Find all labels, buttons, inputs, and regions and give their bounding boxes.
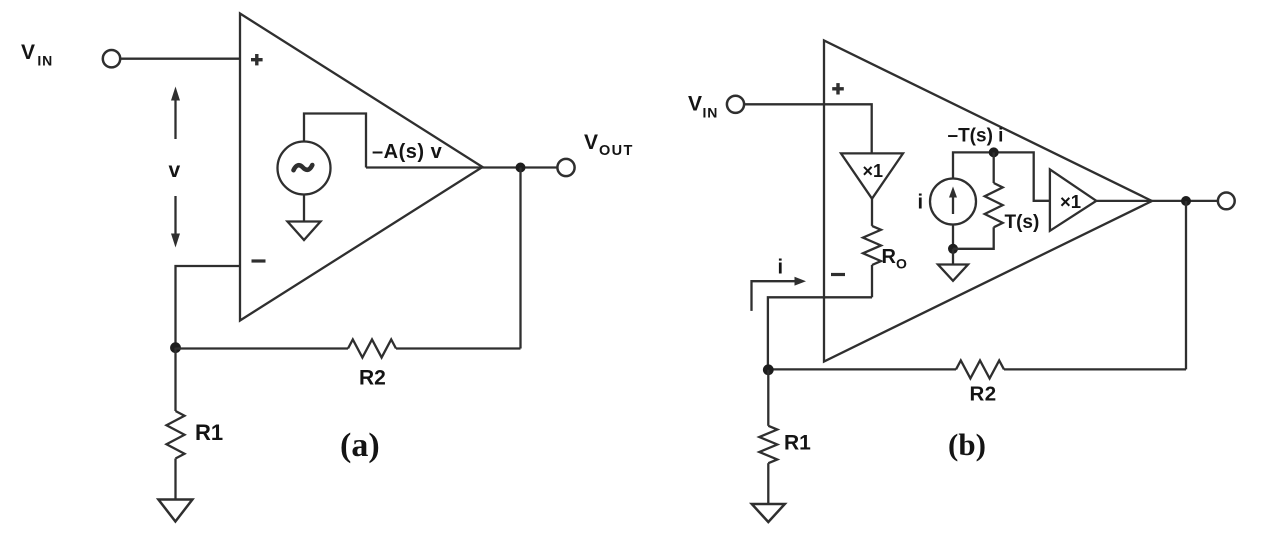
input terminal (a)	[103, 50, 120, 67]
svg-text:V: V	[688, 93, 702, 116]
svg-text:O: O	[896, 256, 907, 272]
wire − input (a)	[176, 266, 242, 348]
output terminal (b)	[1218, 193, 1235, 210]
svg-text:R: R	[882, 246, 897, 268]
pin + label (a)	[251, 54, 263, 65]
svg-text:V: V	[584, 131, 598, 154]
wire R1 to ground (b)	[767, 463, 769, 504]
op-amp U2	[824, 41, 1152, 362]
resistor R2 (a)	[348, 340, 396, 358]
svg-text:–T(s) i: –T(s) i	[948, 126, 1004, 147]
svg-text:OUT: OUT	[599, 143, 634, 159]
wire − input rail (b)	[768, 297, 872, 370]
wire node to R2 (a)	[176, 347, 349, 349]
node VOUT label (a)	[584, 131, 634, 159]
resistor RO	[863, 226, 881, 265]
wire tee top (b)	[953, 152, 1050, 200]
junction dot bottom (b)	[948, 244, 958, 254]
wire input to buffer (b)	[744, 104, 872, 153]
tilde of source V1	[294, 165, 313, 170]
wire T(s) top	[993, 152, 995, 183]
wire source to ground (a)	[303, 194, 305, 222]
wire output down (b)	[1185, 201, 1187, 369]
wire bottom to T(s)	[953, 227, 994, 249]
resistor T(s)	[985, 183, 1003, 227]
arrow of source I1	[949, 187, 957, 215]
svg-text:V: V	[21, 41, 35, 64]
op-amp U1	[240, 14, 483, 321]
svg-text:×1: ×1	[1060, 191, 1081, 212]
wire R1 to ground (a)	[174, 459, 176, 500]
input terminal (b)	[727, 96, 744, 113]
node VIN label (b)	[688, 93, 718, 121]
wire output down (a)	[519, 168, 521, 349]
pin − label (a)	[252, 259, 266, 262]
label RO	[882, 246, 908, 272]
arrow i (b)	[752, 277, 807, 311]
wire node to R1 (b)	[767, 370, 769, 426]
resistor R1 (a)	[167, 411, 185, 459]
svg-text:v: v	[169, 159, 181, 182]
wire source top to output lead (a)	[304, 114, 366, 168]
wire output lead (a)	[366, 166, 557, 168]
ground R1 (b)	[752, 504, 785, 522]
wire feedback rail (b)	[1004, 368, 1186, 370]
node A junction dot	[170, 342, 181, 353]
wire output lead (b)	[1096, 200, 1218, 202]
pin + label (b)	[832, 83, 844, 94]
junction dot tee (b)	[989, 147, 999, 157]
node B junction dot	[763, 364, 774, 375]
wire node to R1 (a)	[174, 348, 176, 411]
dashed arrow v down	[171, 196, 180, 248]
wire R2 to output column (a)	[396, 347, 521, 349]
wire RO to minus rail	[871, 265, 873, 297]
svg-text:×1: ×1	[863, 161, 884, 181]
svg-text:R2: R2	[359, 367, 386, 390]
wire source to ground (b)	[952, 249, 954, 265]
ground of source (a)	[288, 222, 321, 241]
voltage source V1 (a)	[278, 142, 331, 195]
current source I1	[930, 179, 976, 225]
node output dot (a)	[516, 163, 526, 173]
wire buffer to RO	[871, 199, 873, 226]
svg-text:(a): (a)	[340, 427, 380, 464]
svg-text:i: i	[778, 257, 784, 279]
resistor R2 (b)	[956, 360, 1004, 378]
svg-text:IN: IN	[703, 105, 719, 121]
svg-text:R1: R1	[784, 432, 811, 455]
pin − label (b)	[831, 273, 845, 276]
svg-text:R2: R2	[970, 383, 997, 406]
svg-text:(b): (b)	[948, 427, 986, 462]
svg-text:T(s): T(s)	[1005, 212, 1040, 233]
svg-text:–A(s) v: –A(s) v	[372, 141, 443, 163]
node VIN label (a)	[21, 41, 53, 69]
dashed arrow v up	[171, 87, 180, 140]
wire input to op-amp + (a)	[120, 58, 240, 60]
ground R1 (a)	[158, 500, 192, 522]
svg-text:i: i	[918, 192, 924, 214]
output terminal (a)	[557, 159, 574, 176]
svg-text:R1: R1	[195, 420, 223, 445]
svg-text:IN: IN	[37, 53, 53, 69]
buffer U3 x1 input	[841, 153, 903, 198]
wire node to R2 (b)	[768, 368, 956, 370]
resistor R1 (b)	[759, 426, 777, 463]
wire source bottom (b)	[952, 225, 954, 249]
buffer U4 x1 output	[1050, 169, 1096, 230]
node output dot (b)	[1181, 196, 1191, 206]
ground of source (b)	[938, 265, 968, 281]
